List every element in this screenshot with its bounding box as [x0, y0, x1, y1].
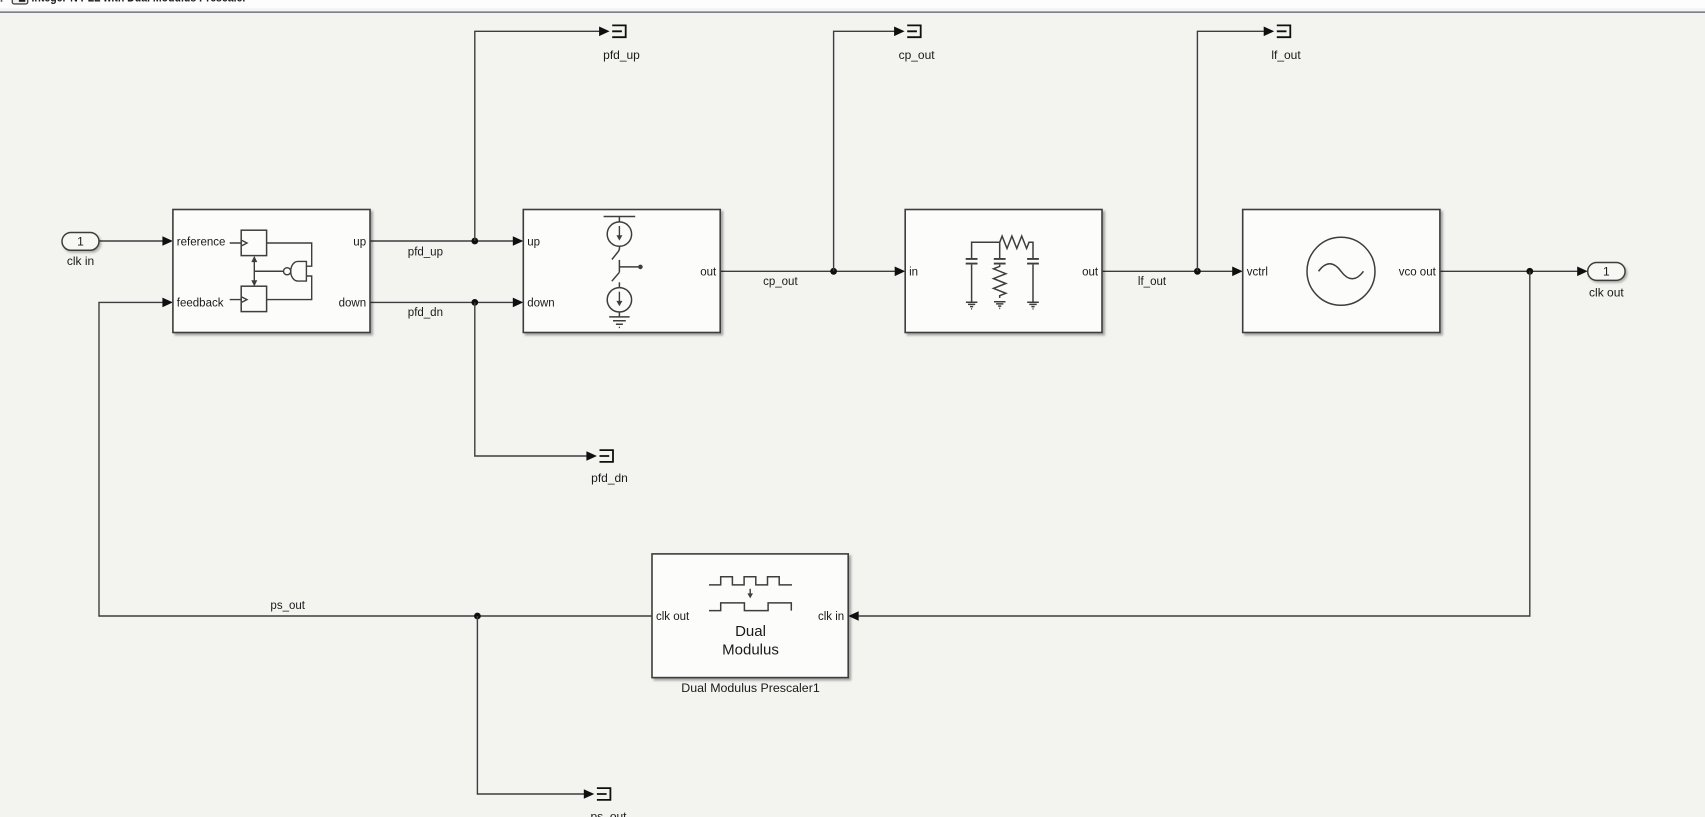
wire PFD down to CP down (net pfd_dn): [370, 301, 513, 303]
svg-text:ps_out: ps_out: [590, 810, 627, 817]
svg-text:up: up: [353, 236, 366, 248]
LF icon resistor R (horizontal): [1000, 236, 1033, 258]
CP icon current source top: [607, 222, 631, 246]
VCO icon oscillator: [1307, 237, 1375, 305]
LF icon right branch: [1032, 265, 1034, 303]
wire PFD up to CP up (net pfd_up): [370, 240, 513, 242]
svg-text:down: down: [527, 298, 555, 310]
LF icon resistor R2 (vertical): [994, 265, 1006, 298]
wire branch to pfd_up outport: [475, 31, 600, 241]
block Charge Pump: [523, 210, 720, 333]
block Dual Modulus Prescaler1: [652, 554, 848, 678]
svg-text:pfd_up: pfd_up: [603, 48, 640, 62]
wire branch to ps_out outport: [477, 616, 584, 794]
svg-text:clk out: clk out: [1589, 286, 1624, 300]
LF icon capacitor C1: [966, 259, 978, 264]
breadcrumb separator line: [0, 11, 1705, 13]
LF icon left branch: [971, 265, 973, 303]
CP icon current source bottom: [607, 288, 631, 312]
svg-text:cp_out: cp_out: [899, 48, 936, 62]
svg-text:down: down: [339, 298, 367, 310]
outport symbol ps_out: [597, 787, 611, 801]
inport 1 clk in: [62, 233, 99, 251]
LF icon capacitor C2: [994, 259, 1006, 264]
junction pfd_dn branch: [471, 299, 478, 306]
svg-text:pfd_dn: pfd_dn: [408, 307, 443, 319]
wire prescaler clk out to PFD feedback (net ps_out): [99, 302, 652, 616]
outport symbol lf_out: [1277, 25, 1291, 39]
prescaler icon slow clock waveform: [709, 603, 791, 611]
junction pfd_up branch: [471, 238, 478, 245]
svg-text:clk out: clk out: [656, 611, 690, 623]
breadcrumb model icon (cut): [12, 0, 27, 4]
svg-text:pfd_up: pfd_up: [408, 246, 443, 258]
PFD icon wire bottom FF to gate: [267, 276, 312, 300]
block Loop Filter: [905, 210, 1102, 333]
wire clk in to PFD reference: [99, 240, 163, 242]
junction lf_out branch: [1194, 268, 1201, 275]
wire CP out to LF in (net cp_out): [720, 270, 895, 272]
block PFD: [173, 210, 370, 333]
svg-text:1: 1: [77, 235, 84, 249]
PFD icon wire top FF to gate: [267, 243, 312, 266]
svg-text:clk in: clk in: [818, 611, 844, 623]
junction vco out feedback branch: [1526, 268, 1533, 275]
CP icon stub: [618, 282, 620, 287]
svg-text:reference: reference: [177, 236, 226, 248]
wire branch to pfd_dn outport: [475, 302, 587, 456]
wire branch to lf_out outport: [1197, 31, 1264, 271]
PFD icon reset line: [254, 261, 283, 281]
svg-text:in: in: [909, 266, 918, 278]
breadcrumb caret (cut): [1, 0, 3, 2]
PFD icon reset arrow down: [251, 280, 257, 286]
svg-text:out: out: [700, 266, 717, 278]
PFD icon reset arrow up: [251, 256, 257, 262]
CP icon output node: [619, 260, 638, 272]
svg-text:vco out: vco out: [1399, 266, 1437, 278]
breadcrumb bar: [0, 0, 1705, 11]
outport symbol pfd_dn: [600, 449, 614, 463]
svg-text:1: 1: [1603, 265, 1610, 279]
outport symbol cp_out: [907, 25, 921, 39]
CP icon ground: [609, 312, 629, 327]
svg-text:feedback: feedback: [177, 298, 224, 310]
svg-text:lf_out: lf_out: [1138, 276, 1167, 288]
outport symbol pfd_up: [612, 25, 626, 39]
CP icon supply rail: [604, 217, 636, 223]
block VCO: [1243, 210, 1440, 333]
wire feedback from vco out down to prescaler clk in: [858, 271, 1530, 616]
LF icon ground middle: [994, 302, 1006, 309]
PFD icon NAND gate: [284, 261, 307, 281]
junction cp_out branch: [830, 268, 837, 275]
svg-text:up: up: [527, 236, 540, 248]
prescaler icon divide arrow: [747, 589, 753, 599]
outport 1 clk out: [1588, 263, 1625, 281]
svg-text:Integer-N PLL with Dual Modulu: Integer-N PLL with Dual Modulus Prescale…: [32, 0, 247, 5]
svg-text:Dual: Dual: [735, 623, 766, 640]
junction ps_out branch: [474, 613, 481, 620]
svg-text:vctrl: vctrl: [1247, 266, 1268, 278]
LF icon ground left: [966, 302, 978, 309]
PFD icon flip-flop bottom: [230, 286, 267, 311]
prescaler icon fast clock waveform: [709, 577, 792, 585]
svg-text:cp_out: cp_out: [763, 276, 798, 288]
LF icon ground right: [1027, 302, 1039, 309]
svg-text:ps_out: ps_out: [270, 600, 305, 612]
PFD icon flip-flop top: [230, 230, 267, 255]
wire branch to cp_out outport: [834, 31, 895, 271]
LF icon capacitor C3: [1027, 259, 1039, 264]
wire LF out to VCO vctrl (net lf_out): [1102, 270, 1232, 272]
CP icon switch down: [612, 272, 620, 281]
svg-text:pfd_dn: pfd_dn: [591, 471, 628, 485]
LF icon top wire: [972, 242, 1000, 258]
CP icon switch up: [612, 246, 620, 259]
svg-text:out: out: [1082, 266, 1099, 278]
svg-text:lf_out: lf_out: [1271, 48, 1301, 62]
wire VCO out to clk out port: [1440, 270, 1578, 272]
svg-text:Dual Modulus Prescaler1: Dual Modulus Prescaler1: [681, 681, 820, 695]
svg-text:Modulus: Modulus: [722, 641, 779, 658]
svg-text:clk in: clk in: [67, 254, 94, 268]
